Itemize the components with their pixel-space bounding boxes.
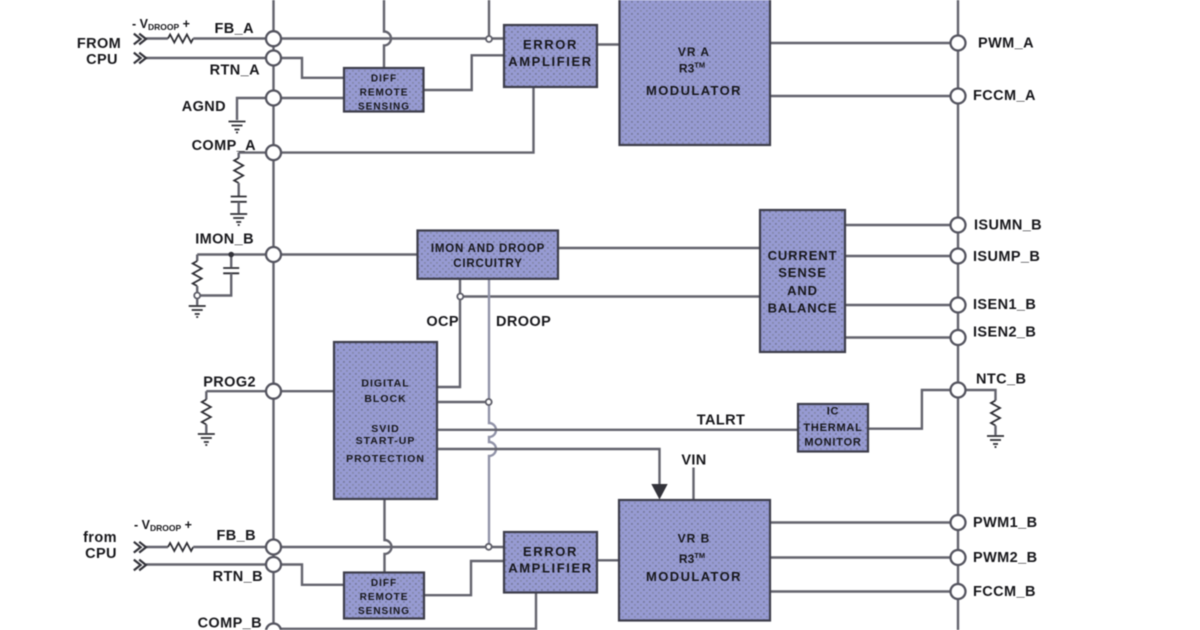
wire FB_B from resistor through pin to error amplifier B: [193, 546, 504, 548]
wire current sense to ISUMN_B pin: [845, 224, 958, 226]
svg-text:BLOCK: BLOCK: [364, 393, 406, 405]
pin COMP_A: [266, 145, 281, 160]
wire resistor to capacitor COMP_A: [237, 183, 239, 196]
svg-text:RTN_A: RTN_A: [210, 63, 260, 79]
svg-text:TALRT: TALRT: [697, 413, 745, 429]
wire digital block bottom to diff sensing B with hop over FB_B wire: [385, 499, 392, 573]
chevron arrows from CPU to RTN_B: [134, 560, 146, 571]
svg-text:MODULATOR: MODULATOR: [646, 83, 742, 98]
wire OCP node to current sense block: [460, 295, 760, 297]
resistor COMP_A network: [234, 158, 243, 183]
wire current sense to ISUMP_B pin: [845, 255, 958, 257]
wire FB_A from resistor through pin to error amplifier A: [193, 37, 504, 39]
resistor PROG2 network: [202, 400, 211, 425]
wire TALRT from digital block to IC thermal monitor: [437, 429, 798, 431]
svg-text:IMON_B: IMON_B: [195, 232, 254, 248]
wire resistor to ground PROG2: [205, 425, 207, 434]
chevron arrows from CPU to FB_B: [134, 542, 146, 553]
ground symbol AGND: [229, 122, 246, 133]
svg-text:FB_B: FB_B: [217, 528, 256, 544]
svg-text:VR B: VR B: [678, 532, 711, 546]
pin FB_A: [266, 31, 281, 46]
svg-text:CPU: CPU: [86, 52, 118, 68]
node circle DROOP: [486, 399, 492, 405]
svg-text:ISEN2_B: ISEN2_B: [973, 325, 1036, 341]
block error amplifier B: [504, 532, 597, 593]
svg-text:BALANCE: BALANCE: [768, 301, 838, 316]
svg-text:ERROR: ERROR: [523, 37, 578, 52]
wire resistor to ground NTC_B: [994, 426, 996, 436]
svg-text:AGND: AGND: [182, 99, 226, 115]
svg-text:NTC_B: NTC_B: [976, 372, 1026, 388]
pin ISUMP_B: [951, 249, 966, 264]
svg-text:FROM: FROM: [77, 36, 121, 52]
node circle on FB_A wire: [486, 36, 492, 42]
left IC boundary bus: [272, 0, 274, 630]
wire error amplifier A output to VR A modulator: [597, 43, 619, 45]
wire VR B modulator to FCCM_B pin: [770, 590, 958, 592]
capacitor lead from IMON_B junction: [230, 255, 232, 268]
block current sense and balance: [760, 210, 845, 352]
ground symbol COMP_A network: [230, 214, 247, 225]
wire diff sensing A output jog up to error amplifier A input: [424, 55, 505, 90]
svg-text:THERMAL: THERMAL: [803, 422, 862, 434]
svg-text:AMPLIFIER: AMPLIFIER: [508, 54, 592, 69]
pin FCCM_B: [951, 584, 966, 599]
pin FCCM_A: [951, 89, 966, 104]
svg-text:REMOTE: REMOTE: [360, 88, 409, 99]
resistor IMON_B network: [193, 261, 202, 286]
svg-text:COMP_B: COMP_B: [198, 616, 262, 630]
block VR A modulator: [620, 0, 771, 145]
svg-text:- VDROOP +: - VDROOP +: [134, 518, 192, 533]
wire NTC_B pin to external resistor: [958, 390, 996, 401]
pin RTN_A: [266, 51, 281, 66]
wire COMP_A horizontal and up-leg to error amplifier A output: [239, 87, 534, 153]
svg-text:REMOTE: REMOTE: [360, 592, 409, 603]
wire capacitor bottom to node IMON_B network: [200, 273, 231, 295]
svg-text:PWM_A: PWM_A: [978, 36, 1034, 52]
svg-text:ISUMP_B: ISUMP_B: [973, 249, 1040, 265]
svg-text:from: from: [83, 530, 117, 546]
wire OCP from digital block up to IMON/DROOP block: [437, 279, 460, 387]
wire current sense to ISEN1_B pin: [845, 304, 958, 306]
COMP_A compensation lead down to resistor: [237, 153, 239, 158]
vertical wire from top into diff sensing A with hop over FB_A wire: [384, 0, 391, 68]
wire VR A modulator to PWM_A pin: [770, 42, 958, 44]
svg-text:SVID: SVID: [371, 423, 400, 435]
svg-text:CPU: CPU: [85, 546, 117, 562]
block diff remote sensing B: [344, 573, 424, 619]
wire resistor to node circle IMON_B network: [196, 286, 198, 293]
pin PROG2: [266, 384, 281, 399]
block IC thermal monitor: [798, 404, 868, 452]
vertical wire from top down to FB_A node junction: [488, 0, 490, 36]
pin ISEN2_B: [951, 330, 966, 345]
wire node circle to ground IMON_B: [196, 299, 198, 306]
svg-text:ISEN1_B: ISEN1_B: [973, 297, 1036, 313]
block IMON and droop circuitry: [418, 231, 559, 279]
wire PROG2 from external resistor through pin to digital block: [206, 390, 334, 392]
svg-text:IMON AND DROOP: IMON AND DROOP: [431, 243, 545, 255]
capacitor COMP_A network: [231, 197, 247, 202]
block diff remote sensing A: [344, 68, 424, 112]
wire digital block to DROOP node: [437, 401, 486, 403]
block digital block: [334, 342, 437, 499]
wire DROOP vertical from IMON/DROOP block down to FB_B node with hops: [489, 279, 496, 543]
wire IMON/DROOP block to current sense block: [558, 247, 760, 249]
resistor on FB_A (V_DROOP sense): [168, 35, 193, 43]
pin PWM1_B: [951, 515, 966, 530]
wire RTN_B from CPU arrow through pin, jog down to diff sensing B: [146, 565, 344, 585]
wire error amplifier B output to VR B modulator: [597, 559, 619, 561]
svg-text:DROOP: DROOP: [496, 314, 551, 330]
svg-text:DIGITAL: DIGITAL: [361, 378, 409, 390]
pin ISEN1_B: [951, 298, 966, 313]
node circle on FB_B wire: [486, 544, 492, 550]
wire AGND to diff sensing A and down-lead to ground: [237, 98, 344, 120]
svg-text:CURRENT: CURRENT: [768, 248, 838, 263]
svg-text:VR A: VR A: [678, 45, 710, 59]
PROG2 resistor lead: [205, 391, 207, 399]
svg-text:SENSING: SENSING: [358, 102, 410, 113]
svg-text:MONITOR: MONITOR: [804, 437, 861, 449]
svg-text:PROG2: PROG2: [203, 375, 256, 391]
wire RTN_A from CPU arrow through pin, jog down to diff sensing A: [146, 58, 344, 78]
pin ISUMN_B: [951, 218, 966, 233]
wire IMON_B from external network through pin to IMON/DROOP block: [197, 253, 417, 255]
svg-text:MODULATOR: MODULATOR: [646, 569, 742, 584]
block VR B modulator: [619, 500, 770, 621]
pin PWM_A: [951, 36, 966, 51]
ground symbol IMON_B network: [189, 306, 206, 317]
svg-text:CIRCUITRY: CIRCUITRY: [453, 258, 522, 270]
capacitor IMON_B network: [223, 268, 239, 273]
wire VR A modulator to FCCM_A pin: [770, 95, 958, 97]
svg-text:PWM1_B: PWM1_B: [973, 515, 1037, 531]
svg-text:DIFF: DIFF: [371, 578, 397, 589]
pin COMP_B: [266, 624, 281, 630]
svg-text:RTN_B: RTN_B: [213, 569, 263, 585]
chevron arrows FROM CPU to RTN_A: [134, 53, 146, 64]
resistor NTC_B network: [991, 401, 1000, 426]
ground symbol NTC_B network: [987, 436, 1004, 447]
svg-text:AND: AND: [787, 283, 818, 298]
pin IMON_B: [266, 247, 281, 262]
pin AGND: [266, 91, 281, 106]
pin RTN_B: [266, 557, 281, 572]
svg-text:PROTECTION: PROTECTION: [346, 453, 425, 465]
svg-text:COMP_A: COMP_A: [192, 138, 257, 154]
wire VR B modulator to PWM2_B pin: [770, 556, 958, 558]
wire VIN into VR B modulator: [692, 468, 694, 501]
pin FB_B: [266, 540, 281, 555]
svg-text:SENSE: SENSE: [778, 265, 827, 280]
svg-text:ERROR: ERROR: [523, 544, 578, 559]
wire from digital block down into VR B modulator (arrow stem): [437, 449, 660, 485]
chevron arrows FROM CPU to FB_A: [134, 34, 146, 45]
svg-text:IC: IC: [827, 406, 840, 418]
node circle IMON_B network: [194, 293, 200, 299]
svg-text:PWM2_B: PWM2_B: [973, 550, 1037, 566]
svg-text:START-UP: START-UP: [356, 435, 416, 447]
right IC boundary bus: [957, 0, 959, 630]
pin PWM2_B: [951, 550, 966, 565]
junction dot IMON_B network: [228, 252, 234, 258]
svg-text:FCCM_B: FCCM_B: [973, 584, 1036, 600]
wire VR B modulator to PWM1_B pin: [770, 521, 958, 523]
wire FB_A left segment from CPU arrow to resistor: [146, 37, 168, 39]
ground symbol PROG2: [198, 434, 215, 445]
arrowhead into VR B modulator: [651, 484, 667, 500]
node circle OCP: [457, 294, 463, 300]
block error amplifier A: [504, 25, 597, 87]
svg-text:- VDROOP +: - VDROOP +: [132, 17, 190, 32]
IMON_B external resistor lead: [196, 255, 198, 262]
svg-text:FB_A: FB_A: [215, 21, 255, 37]
svg-text:SENSING: SENSING: [358, 606, 410, 617]
svg-text:AMPLIFIER: AMPLIFIER: [508, 561, 592, 576]
wire diff sensing B output jog up to error amplifier B input: [424, 561, 505, 595]
svg-text:OCP: OCP: [426, 314, 459, 330]
resistor on FB_B (V_DROOP sense): [168, 543, 193, 551]
wire COMP_B horizontal and up-leg to error amplifier B bottom: [274, 593, 537, 629]
wire FB_B left segment from CPU arrow to resistor: [146, 546, 168, 548]
svg-text:VIN: VIN: [681, 453, 706, 469]
pin NTC_B: [951, 383, 966, 398]
wire IC thermal monitor to NTC_B pin: [868, 390, 951, 429]
svg-text:ISUMN_B: ISUMN_B: [974, 218, 1042, 234]
wire capacitor to ground COMP_A: [237, 202, 239, 213]
svg-text:FCCM_A: FCCM_A: [973, 88, 1036, 104]
wire current sense to ISEN2_B pin: [845, 336, 958, 338]
svg-text:DIFF: DIFF: [371, 74, 397, 85]
